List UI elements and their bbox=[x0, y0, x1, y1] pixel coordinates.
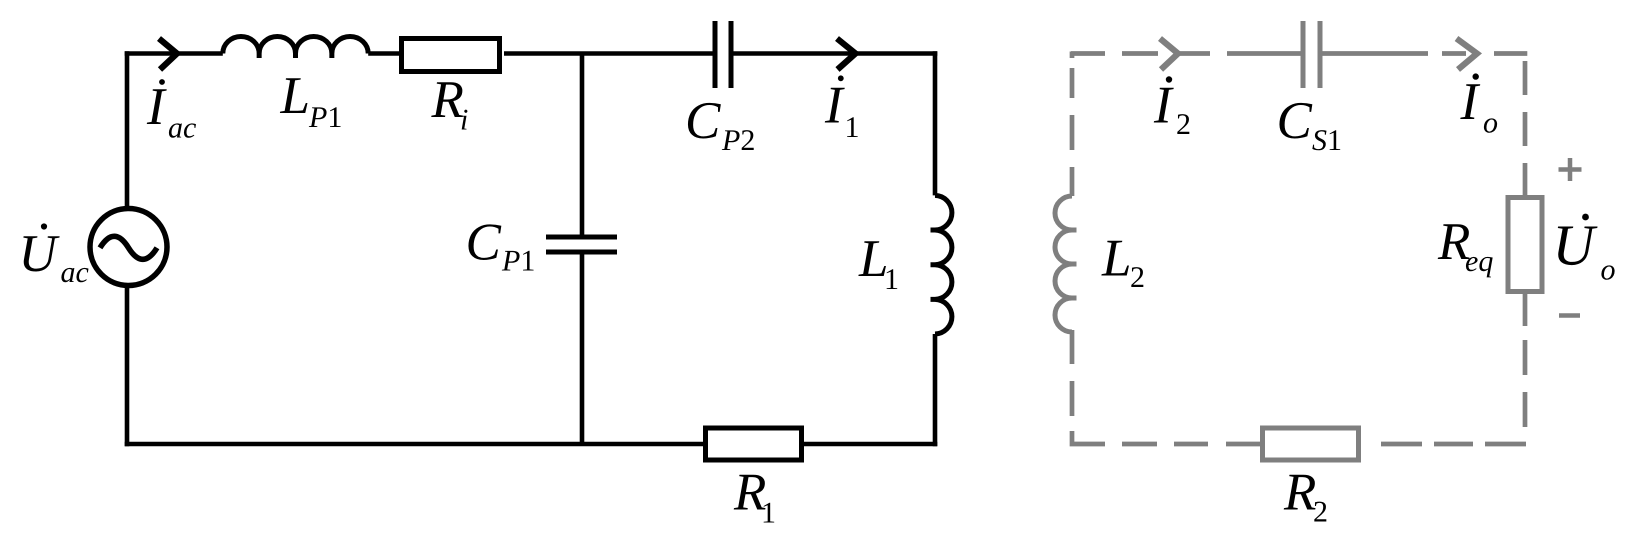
resistor Req bbox=[1508, 198, 1542, 292]
svg-text:L: L bbox=[1101, 230, 1131, 288]
AC source U_ac bbox=[90, 209, 167, 286]
svg-text:1: 1 bbox=[845, 111, 860, 144]
capacitor C_P2 bbox=[713, 21, 718, 88]
inductor L2 bbox=[1055, 196, 1072, 332]
capacitor C_P1 bbox=[546, 235, 617, 240]
wire right vertical top bbox=[933, 51, 938, 195]
svg-text:P2: P2 bbox=[721, 124, 755, 157]
current arrow I_o bbox=[1442, 51, 1466, 56]
wire gray left vertical below coil bbox=[1070, 330, 1075, 364]
svg-text:2: 2 bbox=[1130, 261, 1145, 294]
wire gray right vertical dashed bbox=[1523, 61, 1528, 95]
svg-text:eq: eq bbox=[1465, 245, 1493, 278]
wire bottom left segment bbox=[125, 442, 704, 447]
capacitor C_S1 bbox=[1301, 21, 1306, 88]
wire below Req bbox=[1523, 294, 1528, 326]
wire gray bottom dashed bbox=[1122, 442, 1157, 447]
resistor R2 bbox=[1263, 428, 1359, 460]
wire C_P1 branch bottom bbox=[580, 254, 585, 444]
inductor L1 bbox=[935, 195, 952, 334]
svg-text:1: 1 bbox=[884, 263, 899, 296]
wire C_P2 to right corner bbox=[734, 51, 938, 56]
svg-text:I: I bbox=[146, 78, 167, 136]
svg-text:U: U bbox=[1553, 213, 1599, 278]
svg-text:I: I bbox=[1460, 73, 1481, 131]
minus sign bbox=[1559, 313, 1580, 318]
wire to C_S1 left bbox=[1227, 51, 1301, 56]
svg-text:2: 2 bbox=[1176, 108, 1191, 141]
wire gray left vertical dashed bbox=[1070, 52, 1075, 59]
svg-text:U: U bbox=[19, 225, 61, 283]
resistor R1 bbox=[706, 428, 802, 460]
svg-text:o: o bbox=[1483, 107, 1498, 140]
svg-text:C: C bbox=[466, 214, 502, 272]
svg-text:i: i bbox=[460, 104, 468, 137]
wire C_S1 right bbox=[1323, 51, 1429, 56]
wire left vertical top bbox=[125, 51, 130, 209]
svg-text:P1: P1 bbox=[308, 101, 342, 134]
svg-text:C: C bbox=[685, 92, 721, 150]
wire gray bottom right dashed bbox=[1381, 442, 1422, 447]
svg-text:C: C bbox=[1277, 92, 1313, 150]
svg-text:2: 2 bbox=[1313, 496, 1328, 529]
inductor L_P1 bbox=[223, 36, 368, 53]
resistor Ri bbox=[402, 39, 500, 72]
wire left vertical bottom bbox=[125, 285, 130, 446]
current arrow I_ac bbox=[159, 39, 177, 70]
wire top left segment bbox=[125, 51, 223, 56]
current arrow I_1 bbox=[837, 39, 856, 70]
svg-text:I: I bbox=[1153, 77, 1174, 135]
wire C_P1 branch top bbox=[580, 54, 585, 236]
svg-text:P1: P1 bbox=[501, 245, 535, 278]
wire bottom right segment bbox=[804, 442, 938, 447]
current arrow I_2 bbox=[1160, 39, 1178, 70]
svg-text:R: R bbox=[431, 71, 464, 129]
svg-text:L: L bbox=[280, 67, 310, 125]
svg-text:o: o bbox=[1601, 254, 1616, 287]
svg-text:ac: ac bbox=[61, 256, 89, 289]
wire gray top dashed bbox=[1071, 51, 1105, 56]
svg-text:1: 1 bbox=[761, 497, 776, 530]
svg-text:I: I bbox=[824, 76, 845, 134]
svg-text:R: R bbox=[1283, 464, 1316, 522]
plus sign bbox=[1559, 158, 1582, 181]
svg-text:ac: ac bbox=[168, 112, 196, 145]
wire resistor to C_P2 bbox=[504, 51, 713, 56]
wire coil to resistor bbox=[368, 51, 400, 56]
wire gray top right corner dash bbox=[1494, 51, 1527, 56]
svg-text:S1: S1 bbox=[1312, 124, 1342, 157]
wire right vertical bottom bbox=[933, 334, 938, 446]
